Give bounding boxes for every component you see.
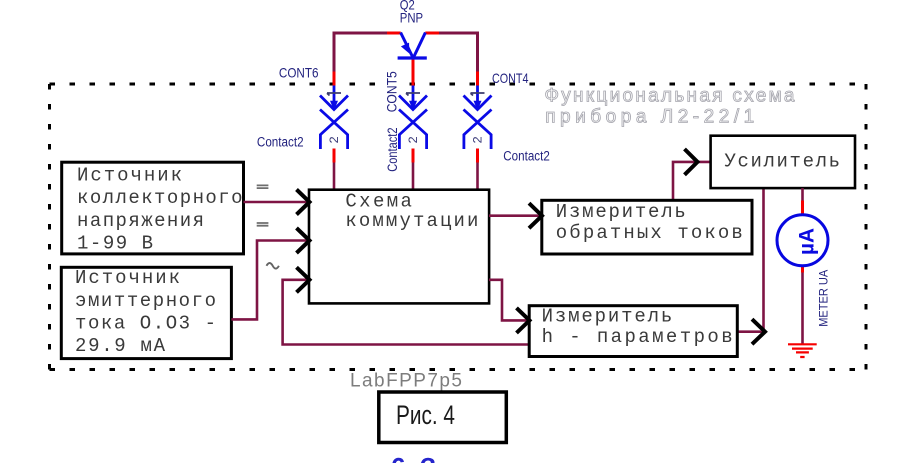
svg-text:CONT4: CONT4 — [492, 70, 529, 86]
wire: red segments near transistor Q2 — [334, 33, 478, 86]
wire: bottom long run to h-meter — [283, 280, 530, 345]
svg-text:напряжения: напряжения — [77, 210, 204, 232]
frame: dashed boundary of functional diagram — [50, 84, 867, 370]
wire: switching box to h-parameter meter — [489, 280, 529, 321]
wire: red stubs below contacts — [334, 149, 478, 163]
label CONT6 — [279, 65, 319, 81]
label METER UA (rotated) — [817, 270, 831, 327]
arrow into switching box (from emitter source) — [297, 228, 310, 253]
figure caption box: Рис. 4 — [379, 392, 507, 443]
svg-text:µA: µA — [796, 228, 819, 255]
svg-text:прибора Л2-22/1: прибора Л2-22/1 — [545, 107, 754, 128]
ground (earth) symbol — [788, 344, 817, 357]
meter U1: microammeter µA — [777, 215, 828, 266]
wire: top collector/emitter bus (maroon) — [334, 33, 478, 73]
title: Функциональная схема прибора Л2-22/1 — [545, 86, 795, 128]
box: Схема коммутации — [309, 190, 489, 304]
arrow from h-meter to amplifier wire — [752, 319, 765, 344]
symbol: ~ (ac) — [267, 263, 279, 269]
label Contact2 #1 — [257, 135, 304, 150]
svg-text:Функциональная схема: Функциональная схема — [545, 86, 795, 107]
svg-text:Contact2: Contact2 — [257, 135, 304, 150]
label Contact2 #2 (rotated) — [385, 126, 400, 173]
box: Источник коллекторного напряжения 1-99 В — [62, 162, 244, 254]
label LabFPP7p5 — [350, 371, 462, 392]
wire: contact stubs down to switching box (maroon) — [334, 150, 478, 190]
svg-text:эмиттерного: эмиттерного — [75, 290, 216, 312]
symbol: = (dc) lower — [257, 223, 269, 226]
box: Измеритель обратных токов — [542, 200, 752, 254]
svg-text:коллекторного: коллекторного — [77, 187, 243, 209]
arrow into h-parameter meter — [517, 308, 530, 333]
svg-text:1-99 В: 1-99 В — [77, 232, 153, 254]
svg-text:Усилитель: Усилитель — [725, 150, 841, 172]
symbol: = (dc) upper — [257, 185, 269, 188]
arrow into reverse-current meter — [529, 203, 542, 228]
wire: red segments at microammeter — [801, 201, 804, 273]
svg-text:6. З: 6. З — [391, 452, 436, 463]
svg-text:CONT5: CONT5 — [384, 71, 400, 112]
svg-text:Источник: Источник — [75, 267, 180, 289]
svg-text:Источник: Источник — [77, 165, 182, 187]
label CONT5 (rotated) — [384, 64, 400, 114]
wire: emitter source to switching box — [231, 241, 309, 320]
svg-text:2: 2 — [408, 136, 420, 143]
svg-text:2: 2 — [329, 136, 341, 143]
svg-text:Contact2: Contact2 — [385, 128, 400, 172]
svg-text:Contact2: Contact2 — [503, 149, 550, 164]
arrow into switching box (from collector source) — [297, 190, 310, 215]
arrow into switching box (bottom) — [297, 267, 310, 292]
wire: switching box to reverse-current meter — [489, 214, 542, 217]
label Contact2 #3 — [503, 149, 550, 164]
svg-text:тока O.O3 -: тока O.O3 - — [75, 312, 216, 334]
contact CONT4/Contact2 #3 — [464, 86, 492, 150]
svg-text:LabFPP7p5: LabFPP7p5 — [350, 371, 462, 392]
box: Источник эмиттерного тока 0.03 - 29.9 мА — [61, 267, 231, 358]
label Q2 — [400, 0, 415, 13]
transistor Q2 (PNP) — [398, 33, 427, 59]
label CONT4 — [492, 70, 529, 86]
contact CONT5/Contact2 #2 — [399, 86, 427, 150]
svg-text:Измеритель: Измеритель — [556, 201, 686, 223]
box: Измеритель h - параметров — [529, 306, 737, 357]
label PNP — [400, 9, 423, 25]
wire: amplifier to meter and ground (maroon) — [801, 188, 804, 344]
svg-text:2: 2 — [473, 136, 485, 143]
box: Усилитель — [711, 136, 855, 188]
svg-text:METER UA: METER UA — [817, 270, 831, 327]
wire: reverse-current meter top to amplifier — [673, 162, 711, 200]
svg-text:Рис. 4: Рис. 4 — [396, 400, 455, 430]
contact CONT6/Contact2 #1 — [320, 86, 348, 150]
svg-text:CONT6: CONT6 — [279, 65, 319, 81]
svg-text:Измеритель: Измеритель — [542, 306, 673, 328]
wire: h-meter output to amplifier bottom wire — [737, 188, 765, 332]
arrow into amplifier — [685, 149, 698, 175]
wire: collector source to switching box — [244, 201, 310, 204]
partial text: 6. З (clipped at page bottom) — [391, 452, 436, 463]
svg-text:PNP: PNP — [400, 9, 423, 25]
